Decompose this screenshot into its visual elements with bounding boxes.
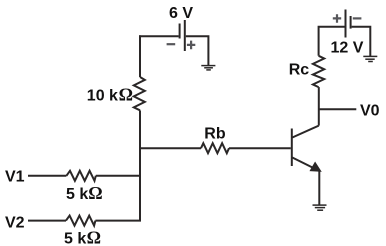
- svg-text:V0: V0: [360, 103, 380, 120]
- svg-text:Rb: Rb: [204, 125, 226, 142]
- wire from 12V minus plate right then down to ground: [352, 27, 371, 56]
- svg-text:V2: V2: [5, 215, 25, 232]
- resistor Rc zigzag (vertical): [313, 56, 324, 87]
- svg-text:V1: V1: [5, 169, 25, 186]
- wire left vertical node line lower (10k bottom down to V2 row): [139, 110, 141, 221]
- svg-text:6 V: 6 V: [169, 5, 193, 22]
- wire base row from node line to Rb: [139, 147, 201, 149]
- transistor Q1 base bar: [291, 129, 293, 167]
- ground under 6V battery: [201, 66, 215, 70]
- svg-text:Rc: Rc: [289, 62, 310, 79]
- resistor R2 5k zigzag: [66, 216, 95, 226]
- wire from 6V plus plate to right then down to ground: [186, 36, 209, 65]
- wire emitter vertical down to ground: [318, 171, 320, 206]
- wire V2 lead-in: [28, 220, 66, 222]
- battery B2 12V short negative plate: [350, 16, 352, 29]
- resistor 10k zigzag (vertical): [134, 77, 145, 110]
- plus sign of 12V battery: [333, 14, 341, 23]
- wire V1 lead-in: [28, 175, 66, 177]
- resistor Rb zigzag: [201, 143, 229, 153]
- resistor R1 5k zigzag: [66, 171, 95, 181]
- wire V1 to node line: [96, 175, 141, 177]
- wire top-left horizontal from node line to 6V battery: [139, 35, 179, 37]
- svg-text:5 k: 5 k: [64, 230, 86, 246]
- transistor Q1 emitter arrowhead: [310, 163, 321, 172]
- minus sign of 6V battery: [167, 43, 176, 45]
- minus sign of 12V battery: [353, 17, 362, 19]
- wire from Rb to transistor base: [229, 147, 291, 149]
- svg-text:Ω: Ω: [119, 84, 133, 104]
- svg-text:Ω: Ω: [87, 227, 101, 246]
- battery B2 12V long positive plate: [345, 10, 347, 38]
- svg-text:Ω: Ω: [88, 183, 102, 203]
- svg-text:10 k: 10 k: [87, 87, 118, 104]
- transistor Q1 collector diagonal: [292, 126, 319, 138]
- wire V0 tap: [319, 108, 357, 110]
- ground under emitter: [313, 205, 327, 210]
- svg-text:5 k: 5 k: [66, 186, 88, 203]
- wire collector vertical from Rc down to bend: [318, 87, 320, 126]
- battery B1 6V long positive plate: [184, 20, 186, 51]
- wire from Rc top up and right to 12V battery: [319, 27, 345, 56]
- wire V2 to node line: [95, 220, 141, 222]
- plus sign of 6V battery: [187, 41, 195, 50]
- svg-text:12 V: 12 V: [331, 40, 364, 57]
- wire left vertical node line upper (to 10k top): [139, 35, 141, 77]
- transistor Q1 emitter diagonal: [292, 158, 317, 171]
- battery B1 6V short negative plate: [179, 24, 181, 39]
- ground under 12V battery: [363, 56, 377, 61]
